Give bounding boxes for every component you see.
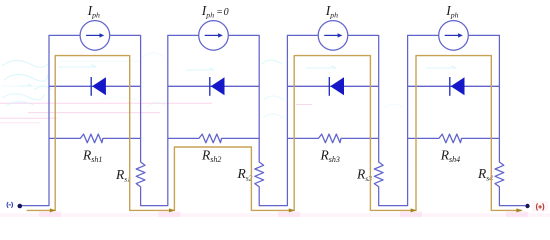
current source I_ph cell 1	[80, 21, 110, 51]
arrowhead current flow at x=174.4	[169, 208, 175, 212]
diode D2	[211, 77, 225, 95]
current source I_ph cell 3	[318, 21, 348, 51]
node (-) terminal	[7, 202, 12, 207]
wire: diode branch cell 3	[287, 85, 378, 87]
wire: diode branch cell 4	[408, 85, 500, 87]
current source I_ph cell 2	[199, 21, 229, 51]
resistor Rsh4	[408, 134, 500, 143]
diode D1	[92, 77, 106, 95]
node (+) terminal	[525, 204, 529, 208]
resistor Rsh2	[168, 134, 259, 143]
resistor Rsh3	[287, 134, 378, 143]
faint artifact marks	[0, 103, 312, 123]
arrowhead current flow at x=521.8	[516, 208, 522, 212]
arrowhead current flow at x=294.2	[289, 208, 295, 212]
wire: current flow path (orange)	[27, 56, 522, 211]
wire: diode branch cell 2	[168, 85, 259, 87]
resistor Rsh1	[49, 134, 141, 143]
wire: diode branch cell 1	[49, 85, 141, 87]
wire: main series loop (-) to (+)	[20, 35, 525, 205]
arrowhead current flow at x=416.0	[411, 208, 417, 212]
diode D4	[451, 77, 465, 95]
current source I_ph cell 4	[439, 21, 469, 51]
diode D3	[330, 77, 344, 95]
arrowhead current flow at x=55.2	[50, 208, 56, 212]
